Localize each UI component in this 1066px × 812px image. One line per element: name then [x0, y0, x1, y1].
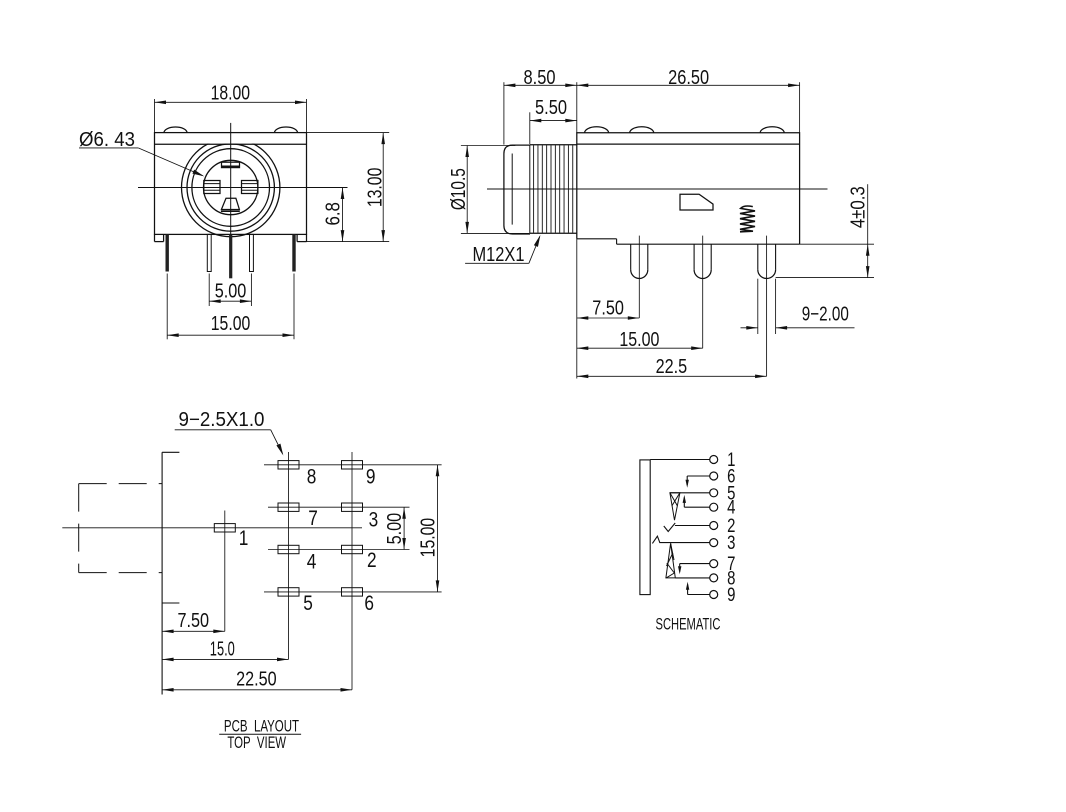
svg-text:SCHEMATIC: SCHEMATIC [656, 614, 721, 633]
svg-text:9: 9 [366, 466, 376, 489]
svg-text:7: 7 [308, 508, 318, 531]
svg-text:15.00: 15.00 [211, 312, 250, 334]
svg-text:Ø10.5: Ø10.5 [447, 168, 469, 210]
svg-text:22.50: 22.50 [236, 668, 276, 690]
svg-text:13.00: 13.00 [364, 168, 386, 207]
svg-text:9−2.5X1.0: 9−2.5X1.0 [179, 409, 265, 432]
svg-text:15.00: 15.00 [619, 328, 659, 350]
svg-text:5.00: 5.00 [383, 513, 405, 545]
svg-text:1: 1 [239, 528, 249, 551]
svg-text:18.00: 18.00 [211, 82, 250, 104]
svg-text:7.50: 7.50 [178, 609, 210, 631]
svg-text:22.5: 22.5 [656, 355, 688, 377]
svg-text:3: 3 [727, 532, 735, 553]
svg-text:5: 5 [303, 593, 313, 616]
svg-text:9−2.00: 9−2.00 [802, 302, 849, 325]
svg-text:3: 3 [369, 509, 379, 532]
svg-text:9: 9 [727, 584, 735, 605]
svg-text:4±0.3: 4±0.3 [846, 186, 869, 228]
svg-text:2: 2 [367, 549, 377, 572]
svg-text:TOP VIEW: TOP VIEW [227, 734, 286, 753]
svg-text:15.0: 15.0 [210, 638, 235, 661]
svg-text:5.50: 5.50 [535, 96, 567, 119]
svg-text:8: 8 [307, 466, 317, 489]
svg-text:26.50: 26.50 [668, 65, 709, 88]
svg-text:5.00: 5.00 [215, 280, 247, 302]
svg-text:4: 4 [307, 551, 317, 574]
svg-text:M12X1: M12X1 [473, 243, 525, 266]
svg-text:8.50: 8.50 [524, 65, 556, 88]
svg-text:6.8: 6.8 [321, 202, 344, 225]
svg-text:15.00: 15.00 [417, 518, 439, 557]
svg-text:7.50: 7.50 [592, 297, 624, 319]
svg-text:6: 6 [364, 593, 374, 616]
